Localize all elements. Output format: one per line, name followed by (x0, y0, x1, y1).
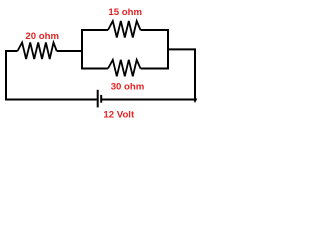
wire bottom right segment (102, 99, 195, 101)
wire bottom branch left (81, 68, 108, 70)
junction blob bottom right (193, 99, 198, 104)
resistor R3 30 ohm zigzag (108, 60, 141, 77)
svg-text:15 ohm: 15 ohm (108, 7, 142, 18)
battery B1 short plate (100, 95, 102, 103)
wire top branch left (81, 29, 108, 31)
svg-text:20 ohm: 20 ohm (25, 31, 59, 42)
wire left vertical + bottom left segment (6, 51, 97, 100)
resistor R2 15 ohm zigzag (108, 21, 141, 38)
wire 20ohm branch left stub (5, 50, 18, 52)
wire exit stub to right vertical (168, 48, 195, 50)
wire right outer vertical (194, 48, 196, 99)
resistor R1 20 ohm zigzag (18, 43, 57, 60)
wire parallel box left vertical (81, 29, 83, 70)
battery B1 long plate (97, 90, 99, 108)
svg-text:30 ohm: 30 ohm (111, 82, 145, 93)
svg-text:12 Volt: 12 Volt (103, 110, 135, 121)
wire parallel box right vertical (167, 29, 169, 70)
wire bottom branch right (141, 68, 170, 70)
wire top branch right (141, 29, 170, 31)
wire 20ohm branch to parallel box (57, 50, 82, 52)
